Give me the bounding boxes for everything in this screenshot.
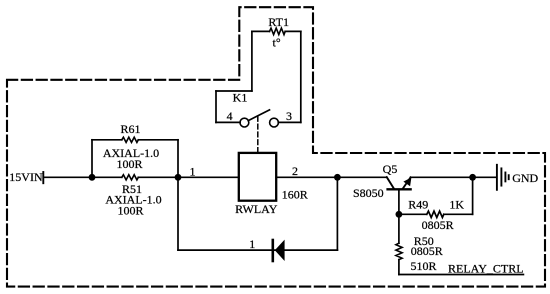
wire: main feed from port to first junction	[44, 176, 122, 178]
switch K1 contact circle left	[240, 118, 249, 127]
svg-text:RT1: RT1	[268, 15, 289, 29]
thermistor RT1 (resistor zigzag)	[270, 28, 286, 34]
wire: R49 right vertical up to emitter rail	[472, 177, 474, 214]
svg-text:R61: R61	[120, 122, 140, 136]
wire: relay pin 2 to collector junction	[276, 176, 337, 178]
svg-text:R49: R49	[408, 197, 428, 211]
junction dot at R61 branch left	[89, 174, 96, 181]
wire: R61 branch top left segment	[92, 139, 122, 141]
wire: Q5 emitter to GND junction	[411, 176, 497, 178]
svg-text:GND: GND	[512, 171, 538, 185]
wire: Q5 base drop	[398, 189, 400, 214]
transistor Q5 base bar	[388, 188, 411, 190]
svg-text:15VIN: 15VIN	[9, 170, 43, 184]
svg-text:Q5: Q5	[383, 162, 398, 176]
resistor R49 zigzag	[427, 211, 444, 217]
svg-text:100R: 100R	[117, 204, 143, 218]
wire: K1 stub to pin 4	[216, 121, 240, 123]
svg-text:1K: 1K	[449, 197, 464, 211]
resistor R51 zigzag (on main wire)	[122, 175, 139, 180]
wire: base node to R49	[399, 213, 427, 215]
wire: RT1 branch left vertical	[251, 31, 253, 91]
port 15VIN terminal bar	[42, 172, 44, 183]
svg-text:RWLAY: RWLAY	[235, 202, 278, 216]
svg-text:1: 1	[190, 164, 196, 178]
svg-text:100R: 100R	[116, 157, 142, 171]
junction dot at relay pin 2 / Q5 collector	[334, 174, 341, 181]
wire: K1 left vertical	[215, 91, 217, 122]
wire: R49 to right vertical	[444, 213, 473, 215]
mechanical link (dashed) from switch to relay coil	[257, 117, 259, 153]
svg-text:2: 2	[292, 164, 298, 178]
wire: RT1 top left segment	[252, 30, 270, 32]
diode anode triangle	[275, 240, 285, 261]
wire: R61 branch left vertical	[91, 140, 93, 178]
svg-text:4: 4	[227, 109, 233, 123]
svg-text:t°: t°	[273, 36, 281, 50]
transistor Q5 collector diagonal	[387, 177, 394, 188]
wire: base node down to R50	[398, 214, 400, 243]
junction dot at base / R49 / R50 node	[396, 211, 403, 218]
wire: pin 3 stub to right branch	[278, 121, 301, 123]
svg-text:K1: K1	[233, 91, 248, 105]
svg-text:0805R: 0805R	[422, 218, 454, 232]
power ground symbol GND	[496, 165, 498, 190]
wire: collector junction to Q5	[337, 176, 386, 178]
junction dot at R61 branch right / diode branch	[175, 174, 182, 181]
wire: RT1 top right segment	[285, 30, 301, 32]
transistor Q5 emitter arrowhead	[403, 177, 411, 186]
wire: R50 to bottom rail	[398, 260, 400, 275]
wire: R61 branch right vertical	[177, 140, 179, 178]
svg-text:160R: 160R	[282, 187, 308, 201]
svg-text:RELAY_CTRL: RELAY_CTRL	[448, 262, 524, 276]
resistor R50 zigzag (vertical)	[396, 243, 402, 259]
switch K1 lever	[248, 110, 269, 121]
wire: diode branch left vertical	[177, 177, 179, 250]
wire: RT1 branch right vertical	[300, 31, 302, 122]
svg-text:3: 3	[286, 109, 292, 123]
wire: RELAY_CTRL net rail	[399, 274, 524, 276]
wire: K1 upper horizontal	[216, 90, 252, 92]
relay coil RWLAY box	[239, 153, 276, 201]
wire: diode branch right vertical	[336, 177, 338, 250]
svg-text:510R: 510R	[410, 259, 436, 273]
svg-text:0805R: 0805R	[411, 244, 443, 258]
junction dot at emitter / R49 return	[469, 174, 476, 181]
wire: main feed from R51 to relay	[138, 176, 239, 178]
wire: diode branch bottom horizontal	[178, 249, 337, 251]
transistor Q5 emitter diagonal	[403, 177, 411, 189]
svg-text:S8050: S8050	[353, 186, 384, 200]
wire: R61 branch top right segment	[138, 139, 178, 141]
switch K1 contact circle right	[270, 118, 279, 127]
svg-text:1: 1	[249, 237, 255, 251]
diode cathode bar	[271, 240, 274, 261]
resistor R61 zigzag	[122, 137, 139, 142]
